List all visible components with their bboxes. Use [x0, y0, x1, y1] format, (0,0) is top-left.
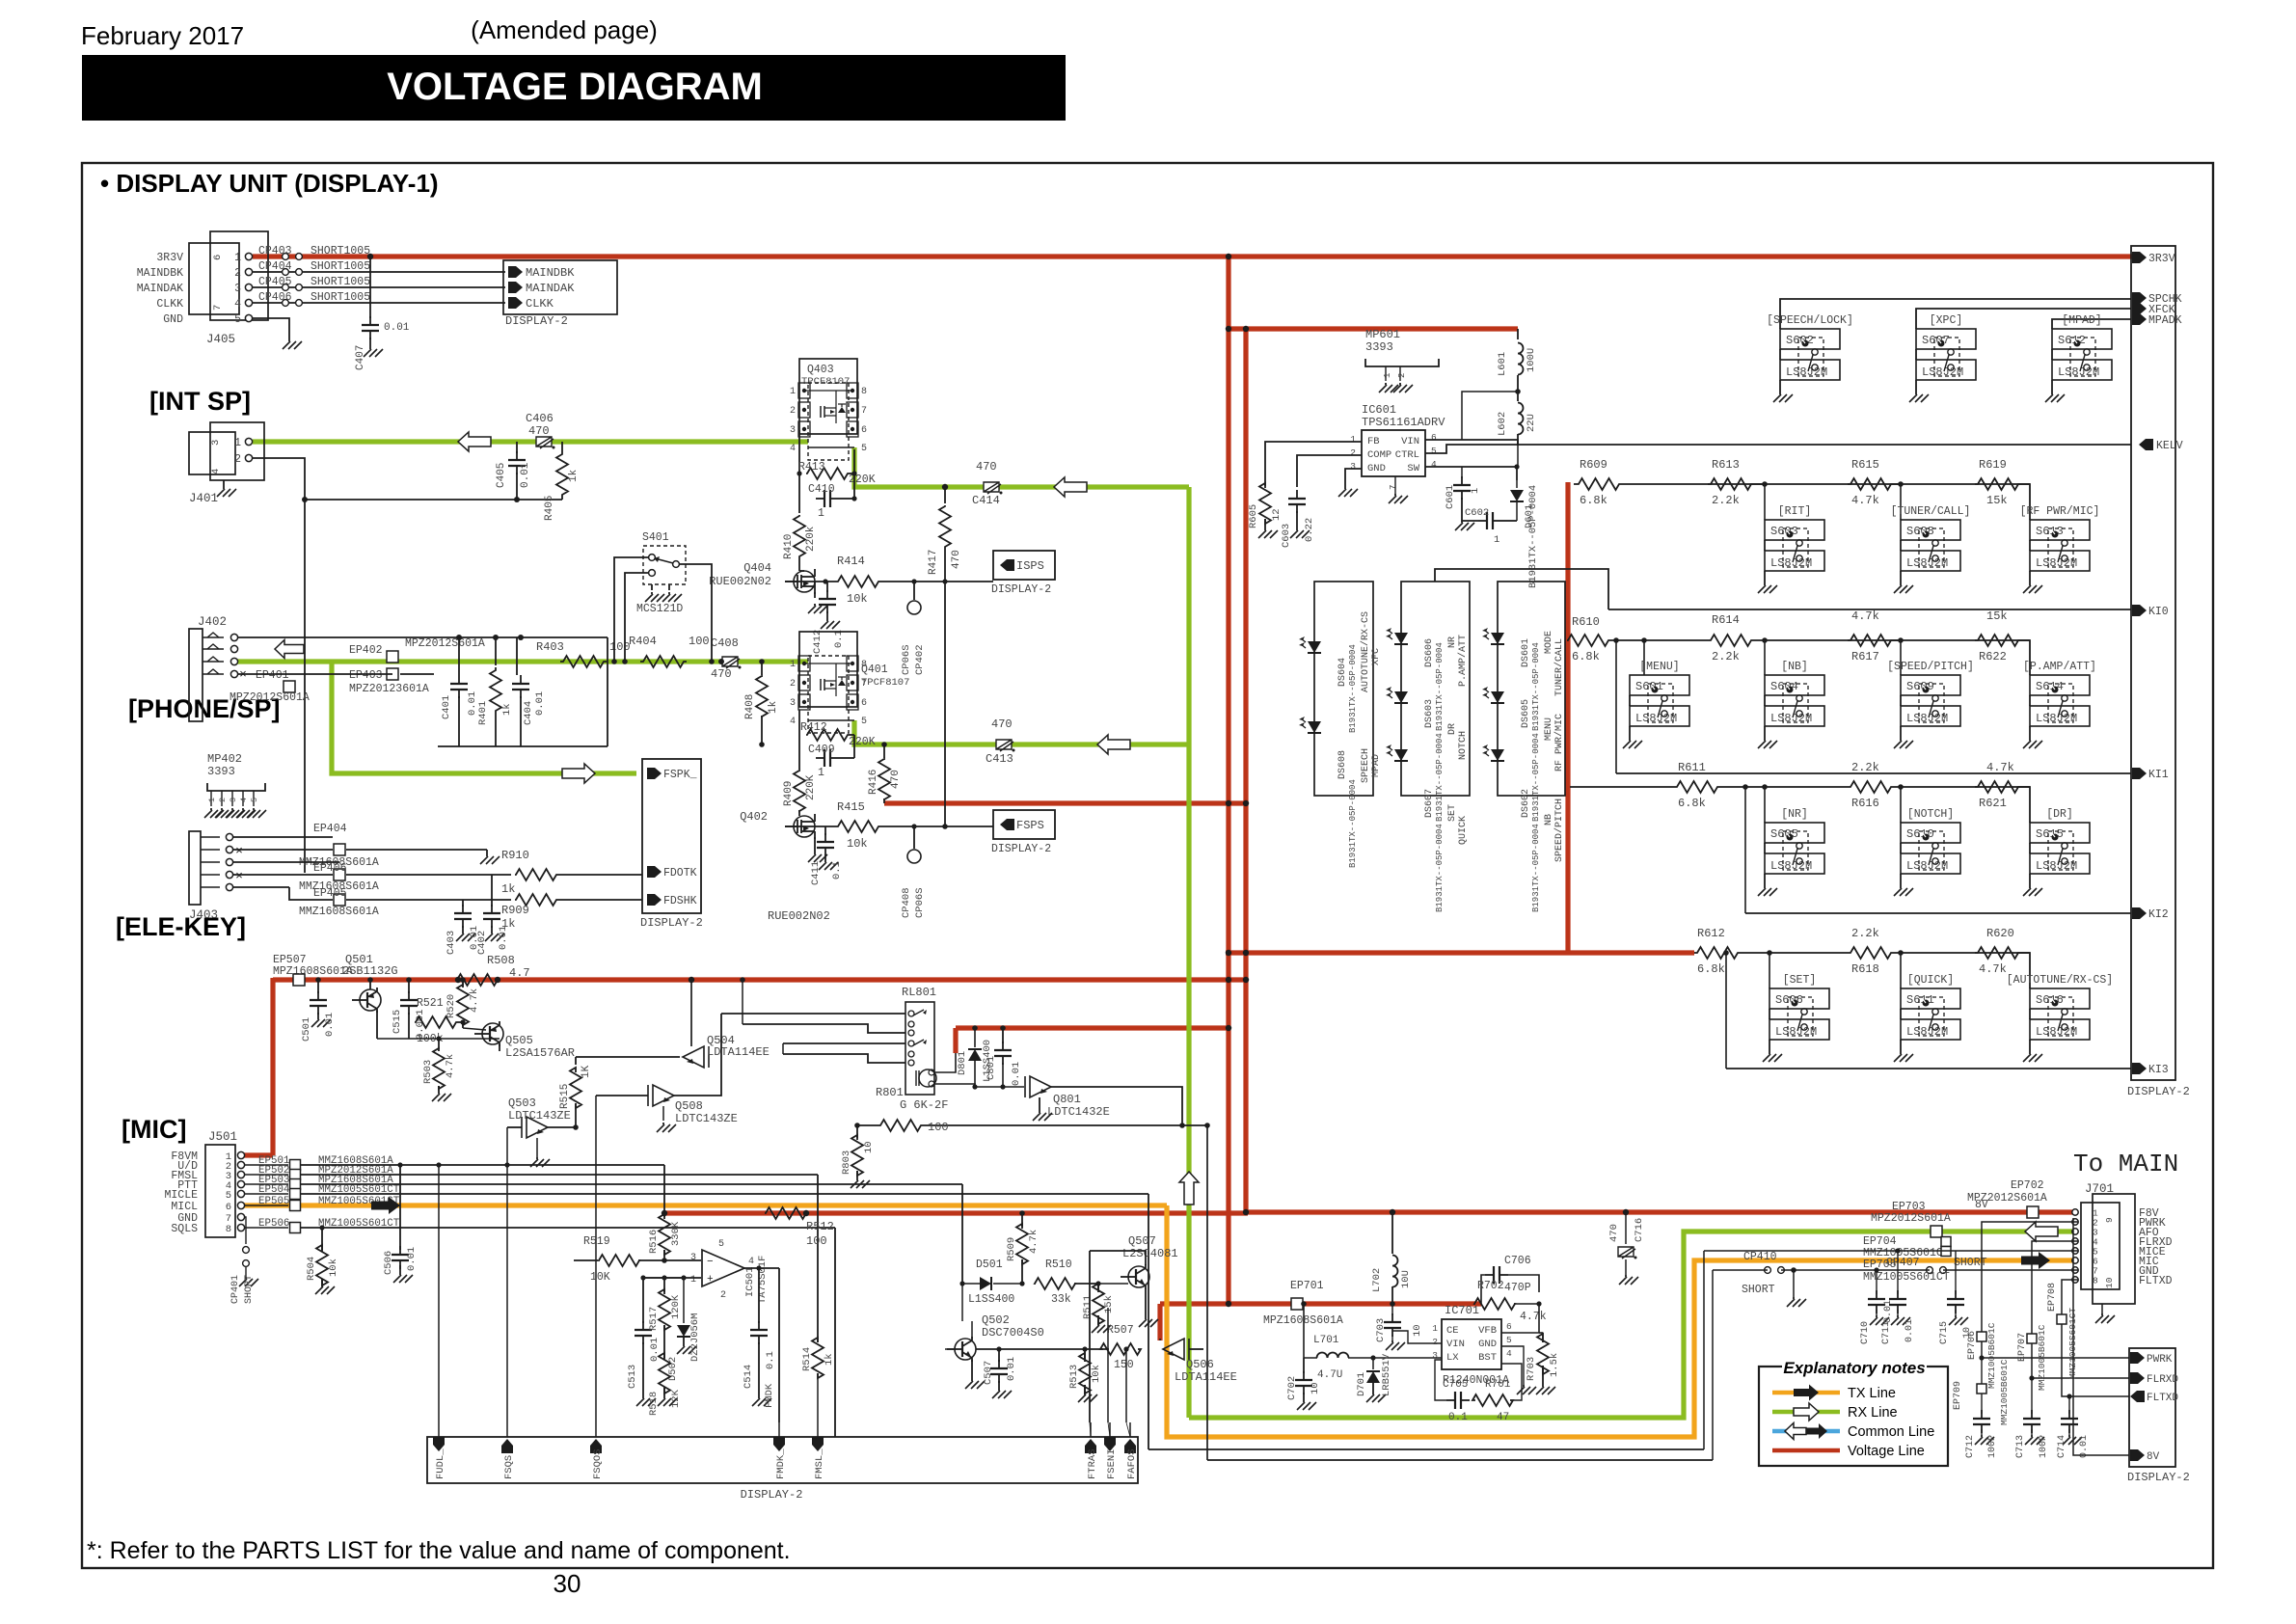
capacitor C714 0.01 [2066, 1394, 2071, 1398]
svg-text:February 2017: February 2017 [81, 21, 244, 50]
svg-text:3: 3 [234, 283, 241, 295]
svg-text:R909: R909 [501, 904, 529, 917]
bead EP706 MMZ1005B601C [1977, 1332, 1986, 1341]
svg-text:RL801: RL801 [902, 986, 936, 999]
svg-text:R616: R616 [1851, 797, 1879, 810]
capacitor C402 0.01 [491, 875, 493, 907]
connector J405 [210, 231, 268, 320]
svg-text:[AUTOTUNE/RX-CS]: [AUTOTUNE/RX-CS] [2007, 974, 2113, 987]
jumper CP405 [283, 284, 289, 291]
svg-text:R615: R615 [1851, 458, 1879, 472]
svg-text:Q508: Q508 [675, 1099, 703, 1113]
wire voltage vertical bus B [1243, 327, 1248, 1212]
svg-text:4: 4 [748, 1257, 754, 1267]
wire voltage R416 branch [884, 800, 1248, 805]
svg-text:4: 4 [1431, 459, 1437, 470]
svg-text:Q502: Q502 [982, 1313, 1010, 1327]
svg-text:CP410: CP410 [1743, 1251, 1777, 1263]
svg-text:6.8k: 6.8k [1697, 962, 1725, 976]
transistor Q505 L2SA1576AR [482, 1023, 503, 1044]
svg-text:2.2k: 2.2k [1851, 927, 1879, 940]
capacitor C706 470P [1481, 1275, 1485, 1304]
wire RX Q401 output [854, 720, 1189, 744]
arrow TX out of J501 [371, 1197, 400, 1214]
wire KI0 line [1435, 569, 1608, 609]
svg-text:VIN: VIN [1446, 1339, 1465, 1350]
svg-text:C414: C414 [972, 494, 1000, 507]
LED column box C [1498, 582, 1565, 796]
jumper CP406 [283, 300, 289, 307]
svg-text:DISPLAY-2: DISPLAY-2 [991, 583, 1051, 596]
svg-text:C409: C409 [808, 744, 835, 756]
resistor R803 10 [856, 1125, 858, 1138]
wire voltage R512 segment [664, 1210, 1248, 1215]
svg-text:4.7k: 4.7k [1520, 1311, 1547, 1323]
port FMDK_ [773, 1437, 785, 1451]
svg-text:5: 5 [861, 444, 867, 454]
svg-text:100: 100 [689, 635, 710, 648]
svg-text:10: 10 [1962, 1327, 1973, 1339]
transistor Q404 RUE002N02 [794, 571, 815, 592]
svg-text:R416: R416 [868, 770, 879, 795]
svg-text:R703: R703 [1526, 1357, 1537, 1381]
resistor R511 15k [1097, 1284, 1099, 1290]
capacitor C412 0.1 [826, 582, 828, 592]
title banner VOLTAGE DIAGRAM [82, 55, 1066, 121]
wire R519 drop [573, 1259, 575, 1261]
svg-text:6.8k: 6.8k [1572, 650, 1600, 663]
svg-text:R417: R417 [928, 550, 939, 575]
svg-text:CP408: CP408 [901, 887, 912, 918]
svg-text:VOLTAGE DIAGRAM: VOLTAGE DIAGRAM [387, 66, 763, 108]
transistor Q402 RUE002N02 [794, 816, 815, 837]
svg-text:PWRK: PWRK [2147, 1354, 2173, 1366]
node box DISPLAY-2 maindbk [503, 260, 617, 314]
wire KI3 line [1726, 1068, 2131, 1069]
svg-text:C401: C401 [441, 695, 452, 719]
resistor R503 4.7k [438, 1039, 440, 1049]
svg-text:DISPLAY-2: DISPLAY-2 [741, 1488, 803, 1502]
svg-text:D701: D701 [1356, 1372, 1367, 1396]
resistor R801 100 [854, 1123, 860, 1128]
svg-text:BST: BST [1478, 1352, 1497, 1364]
svg-text:22U: 22U [1526, 414, 1537, 432]
svg-text:J401: J401 [189, 492, 218, 505]
svg-text:100P: 100P [1987, 1435, 1998, 1458]
svg-text:FSENI: FSENI [1106, 1448, 1118, 1479]
port FSQS [501, 1439, 513, 1453]
wire SPCHK line [1780, 299, 2131, 329]
svg-text:S616: S616 [2036, 993, 2064, 1007]
svg-text:R517: R517 [648, 1307, 660, 1331]
svg-text:12K: 12K [670, 1389, 682, 1408]
svg-text:4: 4 [239, 798, 249, 802]
svg-text:KI3: KI3 [2148, 1064, 2169, 1076]
resistor R513 10k [1084, 1349, 1086, 1360]
svg-text:0.01: 0.01 [384, 322, 410, 334]
legend box Explanatory notes [1759, 1367, 1948, 1466]
resistor R610 6.8k [1567, 635, 1609, 646]
svg-text:EP701: EP701 [1290, 1280, 1324, 1292]
svg-text:LX: LX [1446, 1352, 1459, 1364]
svg-text:R401: R401 [477, 701, 489, 725]
resistor R518 12K [663, 1336, 665, 1358]
wire Q502 collector row [971, 1338, 973, 1340]
svg-text:1: 1 [1494, 534, 1499, 546]
svg-text:S610: S610 [1906, 827, 1934, 841]
svg-text:1: 1 [234, 252, 241, 264]
svg-text:C603: C603 [1281, 524, 1292, 548]
resistor R910 1k [510, 874, 512, 876]
capacitor C405 0.01 [516, 442, 518, 453]
svg-text:LDTC143ZE: LDTC143ZE [675, 1112, 738, 1125]
capacitor C506 0.01 [397, 1162, 402, 1167]
svg-text:33k: 33k [1051, 1293, 1071, 1306]
ferrite C414 470 [984, 482, 1001, 494]
svg-text:MPADK: MPADK [2148, 314, 2182, 327]
svg-text:R618: R618 [1851, 962, 1879, 976]
svg-text:0.01: 0.01 [520, 462, 531, 488]
transistor Q501 2SB1132G [360, 989, 381, 1011]
resistor R403 100 [560, 656, 607, 667]
svg-text:C514: C514 [743, 1365, 754, 1389]
svg-text:C402: C402 [476, 931, 488, 955]
capacitor C713 100P [2029, 1375, 2034, 1380]
svg-text:10: 10 [1310, 1382, 1321, 1394]
wire KI1 line [1615, 640, 1617, 773]
svg-text:4.7k: 4.7k [1986, 761, 2014, 774]
svg-text:[QUICK]: [QUICK] [1907, 974, 1954, 987]
inductor L702 10U [1391, 1212, 1393, 1254]
svg-text:10k: 10k [1091, 1365, 1102, 1383]
wire RX vertical bus [1186, 487, 1191, 1418]
svg-text:R617: R617 [1851, 650, 1879, 663]
svg-text:0.01: 0.01 [534, 691, 546, 716]
svg-text:10K: 10K [590, 1271, 610, 1284]
svg-text:FTRAS: FTRAS [1087, 1448, 1098, 1479]
svg-text:100P: 100P [2039, 1435, 2049, 1458]
capacitor C409 1 [816, 757, 824, 759]
wire Q508 output joins Q504 [674, 1014, 721, 1096]
resistor R415 10k [835, 821, 881, 832]
wire IC601 GND [1345, 469, 1362, 487]
svg-text:3393: 3393 [1365, 340, 1393, 354]
svg-text:• DISPLAY UNIT (DISPLAY-1): • DISPLAY UNIT (DISPLAY-1) [100, 169, 439, 198]
svg-text:B1931TX--05P-0004: B1931TX--05P-0004 [1435, 824, 1445, 912]
svg-text:R413: R413 [798, 461, 825, 474]
svg-text:MMZ1608S601A: MMZ1608S601A [299, 906, 379, 918]
arrow RX on Q403 output [1054, 477, 1087, 497]
svg-text:2: 2 [234, 453, 241, 466]
wire Q801 input from R801 node [1051, 1087, 1182, 1125]
resistor R417 470 [944, 487, 946, 503]
wire TX line to J701 [1167, 1205, 2078, 1437]
svg-text:[MIC]: [MIC] [122, 1115, 186, 1144]
svg-text:[ELE-KEY]: [ELE-KEY] [116, 912, 246, 941]
svg-text:R702: R702 [1477, 1280, 1504, 1292]
svg-text:10k: 10k [847, 592, 868, 606]
resistor R612 6.8k [1694, 947, 1741, 959]
node box ISPS [993, 551, 1055, 580]
port KELV [2139, 439, 2153, 450]
svg-text:R511: R511 [1082, 1295, 1094, 1319]
svg-text:R513: R513 [1068, 1365, 1080, 1389]
svg-text:L2SA1576AR: L2SA1576AR [505, 1046, 575, 1060]
svg-text:LS8J2M: LS8J2M [1922, 365, 1963, 379]
svg-text:2: 2 [1350, 447, 1356, 458]
svg-text:FMDK_: FMDK_ [775, 1448, 787, 1479]
svg-text:220K: 220K [849, 474, 876, 486]
svg-text:5: 5 [234, 313, 241, 326]
arrow RX into J701 [2025, 1222, 2058, 1241]
svg-text:R701: R701 [1485, 1379, 1511, 1391]
svg-text:DS604: DS604 [1337, 658, 1348, 687]
svg-text:AUTOTUNE/RX-CS: AUTOTUNE/RX-CS [1360, 611, 1371, 692]
svg-text:S602: S602 [1786, 334, 1814, 347]
svg-text:CP06S: CP06S [914, 887, 926, 918]
resistor R702 4.7k [1474, 1298, 1515, 1310]
svg-text:3393: 3393 [207, 765, 235, 778]
svg-text:SHORT: SHORT [244, 1275, 255, 1304]
svg-text:LS8J2M: LS8J2M [1775, 1025, 1817, 1039]
svg-text:B1931TX--05P-0004: B1931TX--05P-0004 [1531, 733, 1541, 822]
wire J405 pin3 net [253, 286, 505, 288]
wire MICLE net [301, 1193, 1148, 1195]
resistor R412 220K [798, 710, 800, 735]
capacitor C407 0.01 [369, 257, 371, 318]
svg-text:15k: 15k [1103, 1295, 1115, 1313]
svg-text:EP402: EP402 [349, 644, 383, 657]
svg-text:R514: R514 [801, 1347, 813, 1371]
wire voltage branch to L601 [1227, 326, 1518, 331]
svg-text:MCS121D: MCS121D [636, 603, 683, 615]
port FMSL_ [812, 1437, 824, 1451]
resistor R515 1K [575, 1057, 577, 1065]
bead EP702 MPZ2012S601A [2027, 1206, 2039, 1218]
wire jack top contact net [238, 636, 608, 638]
svg-text:(Amended page): (Amended page) [471, 15, 658, 44]
svg-text:LS8J2M: LS8J2M [1786, 365, 1827, 379]
svg-text:TPS61161ADRV: TPS61161ADRV [1362, 416, 1445, 429]
svg-text:Q402: Q402 [740, 810, 768, 824]
svg-text:SHORT1005: SHORT1005 [311, 291, 370, 304]
svg-text:DS602: DS602 [1521, 789, 1531, 818]
wire J401 pin2 net [253, 458, 562, 500]
svg-text:[NB]: [NB] [1781, 661, 1808, 673]
wire IC601 VIN [1425, 440, 1518, 446]
capacitor C410 1 [816, 498, 824, 500]
svg-text:C601: C601 [1445, 485, 1456, 509]
wire voltage vertical bus A [1226, 257, 1230, 1304]
svg-text:470: 470 [711, 667, 732, 681]
svg-text:1k: 1k [501, 882, 515, 896]
svg-text:C413: C413 [986, 752, 1013, 766]
svg-text:2: 2 [234, 267, 241, 280]
svg-text:30: 30 [554, 1569, 581, 1598]
svg-text:C501: C501 [301, 1017, 312, 1042]
port 3R3V [2132, 252, 2147, 263]
svg-text:GND: GND [1478, 1339, 1497, 1350]
svg-text:2.2k: 2.2k [1712, 494, 1740, 507]
svg-text:220K: 220K [849, 736, 876, 748]
wire 8V net to display2 [2073, 1218, 2129, 1455]
svg-text:R801: R801 [876, 1086, 904, 1099]
svg-text:DS605: DS605 [1521, 699, 1531, 728]
svg-text:C506: C506 [383, 1251, 394, 1275]
wire IC701 GND [1501, 1346, 1524, 1385]
svg-text:S607: S607 [1922, 334, 1950, 347]
svg-text:1: 1 [818, 767, 824, 779]
resistor R508 4.7 [457, 974, 498, 986]
svg-text:*: Refer to the PARTS LIST for: *: Refer to the PARTS LIST for the value… [87, 1537, 791, 1564]
svg-text:5: 5 [250, 798, 259, 802]
svg-text:J405: J405 [206, 333, 235, 346]
port KI3 [2132, 1063, 2147, 1074]
svg-text:S612: S612 [2058, 334, 2086, 347]
svg-text:LS8J2M: LS8J2M [1906, 1025, 1948, 1039]
svg-text:C407: C407 [355, 345, 366, 370]
wire EP701 to L701 branch [1303, 1304, 1305, 1358]
svg-text:CP407: CP407 [1886, 1257, 1920, 1269]
svg-text:R510: R510 [1045, 1259, 1072, 1271]
capacitor C712 100P [1981, 1394, 1983, 1414]
svg-text:C715: C715 [1939, 1321, 1950, 1344]
wire voltage branch D801 [956, 1025, 1229, 1030]
svg-text:MPZ2012S601A: MPZ2012S601A [230, 691, 310, 704]
resistor R408 1k [761, 662, 763, 675]
resistor R507 150 [1100, 1343, 1141, 1355]
svg-text:100: 100 [928, 1121, 949, 1134]
svg-text:[SPEECH/LOCK]: [SPEECH/LOCK] [1767, 314, 1853, 327]
svg-text:R403: R403 [536, 640, 564, 654]
transistor Q507 L2SC4081 [1128, 1266, 1149, 1287]
bead EP707 MMZ1005B601C [2027, 1334, 2037, 1343]
resistor R514 1k [812, 1338, 824, 1378]
svg-text:LS8J2M: LS8J2M [2036, 712, 2077, 725]
resistor R622 15k [1975, 635, 2021, 646]
svg-text:2: 2 [1432, 1337, 1438, 1347]
svg-text:C801: C801 [986, 1056, 997, 1080]
wire J405 pin4 net [253, 302, 505, 304]
svg-text:R414: R414 [837, 555, 865, 568]
bead EP504 MMZ1005S601CT [245, 1193, 288, 1195]
wire common line risers right [1703, 1251, 1705, 1449]
resistor R414 10k [835, 576, 881, 587]
svg-text:MMZ1005B601C: MMZ1005B601C [2037, 1324, 2047, 1391]
wire long vertical from J401 bottom [304, 500, 306, 873]
wire Q505 emitter net [377, 1038, 500, 1040]
svg-text:MPZ2012S601A: MPZ2012S601A [405, 637, 485, 650]
capacitor C401 0.01 [458, 637, 460, 675]
svg-text:10: 10 [1412, 1324, 1423, 1337]
svg-text:QUICK: QUICK [1458, 816, 1469, 845]
svg-text:SHORT1005: SHORT1005 [311, 276, 370, 288]
svg-text:[RF PWR/MIC]: [RF PWR/MIC] [2020, 505, 2100, 518]
svg-text:MAINDBK: MAINDBK [526, 266, 575, 280]
svg-text:LS8J2M: LS8J2M [1635, 712, 1677, 725]
svg-text:R622: R622 [1979, 650, 2007, 663]
bead EP704 MMZ1005S601CT [1941, 1237, 1951, 1247]
svg-text:C406: C406 [526, 412, 554, 425]
wire Q503 input FSQS [507, 1126, 522, 1128]
svg-text:−: − [707, 1257, 714, 1268]
svg-text:R404: R404 [629, 635, 657, 648]
svg-text:S615: S615 [2036, 827, 2064, 841]
svg-text:COMP: COMP [1367, 449, 1391, 461]
svg-text:P.AMP/ATT: P.AMP/ATT [1457, 635, 1469, 687]
svg-text:LS8J2M: LS8J2M [2036, 859, 2077, 873]
svg-text:CP406: CP406 [258, 291, 292, 304]
port MPADK [2132, 313, 2147, 325]
svg-text:LRB551V: LRB551V [1381, 1353, 1392, 1396]
svg-text:C716: C716 [1634, 1218, 1645, 1242]
svg-text:DZ2J056M: DZ2J056M [689, 1313, 701, 1362]
svg-text:6: 6 [1506, 1321, 1512, 1332]
wire opamp plus input [643, 1277, 701, 1279]
svg-text:3R3V: 3R3V [156, 252, 183, 264]
svg-text:R410: R410 [783, 534, 795, 559]
bead EP709 MMZ1005B601C [1979, 1355, 1984, 1360]
svg-text:47: 47 [1497, 1412, 1509, 1423]
svg-text:Q801: Q801 [1053, 1093, 1081, 1106]
svg-text:EP403: EP403 [349, 669, 383, 682]
svg-text:100U: 100U [1526, 348, 1537, 372]
svg-text:0.01: 0.01 [498, 926, 509, 950]
svg-text:10k: 10k [847, 837, 868, 851]
svg-text:EP702: EP702 [2011, 1179, 2044, 1192]
svg-text:DR: DR [1447, 723, 1458, 735]
svg-text:[TUNER/CALL]: [TUNER/CALL] [1891, 505, 1971, 518]
svg-text:3: 3 [790, 698, 796, 709]
svg-text:0.01: 0.01 [1904, 1319, 1915, 1342]
svg-text:L701: L701 [1313, 1335, 1339, 1346]
svg-text:0.01: 0.01 [1883, 1300, 1894, 1323]
svg-text:C404: C404 [523, 701, 534, 725]
svg-text:S614: S614 [2036, 680, 2064, 693]
svg-text:FLTXD: FLTXD [2147, 1393, 2178, 1404]
svg-text:FSQS: FSQS [503, 1455, 515, 1479]
wire common riser x1252 [1206, 1125, 1208, 1460]
svg-text:4: 4 [234, 298, 241, 311]
svg-text:FUDL_: FUDL_ [435, 1448, 446, 1479]
svg-text:1: 1 [1350, 434, 1356, 445]
svg-text:470: 470 [951, 550, 962, 569]
svg-text:LS8J2M: LS8J2M [2058, 365, 2099, 379]
wire J401 mount ground [223, 480, 225, 487]
svg-text:15k: 15k [1986, 609, 2008, 623]
wire PTT net [301, 1183, 962, 1185]
legend Common line [1772, 1429, 1840, 1434]
svg-text:EP406: EP406 [313, 862, 347, 875]
svg-text:4: 4 [790, 444, 796, 454]
wire FUDL drop [438, 1165, 440, 1437]
svg-text:SHORT: SHORT [1742, 1284, 1775, 1296]
svg-text:C403: C403 [446, 931, 457, 955]
resistor R516 330K [663, 1213, 665, 1217]
capacitor C514 0.1 [758, 1268, 760, 1323]
bead EP506 MMZ1005S601CT [245, 1227, 288, 1229]
testpoint CP408 CP06S [913, 826, 915, 849]
connector J402 phone jack [189, 629, 203, 721]
svg-text:EP504: EP504 [258, 1184, 289, 1196]
svg-text:0.1: 0.1 [831, 861, 843, 880]
svg-text:KELV: KELV [2156, 440, 2183, 452]
resistor R509 4.7k [1021, 1213, 1023, 1227]
svg-text:R910: R910 [501, 849, 529, 862]
svg-text:R620: R620 [1986, 927, 2014, 940]
wire voltage drop to J501 [270, 978, 275, 1155]
svg-text:R613: R613 [1712, 458, 1740, 472]
